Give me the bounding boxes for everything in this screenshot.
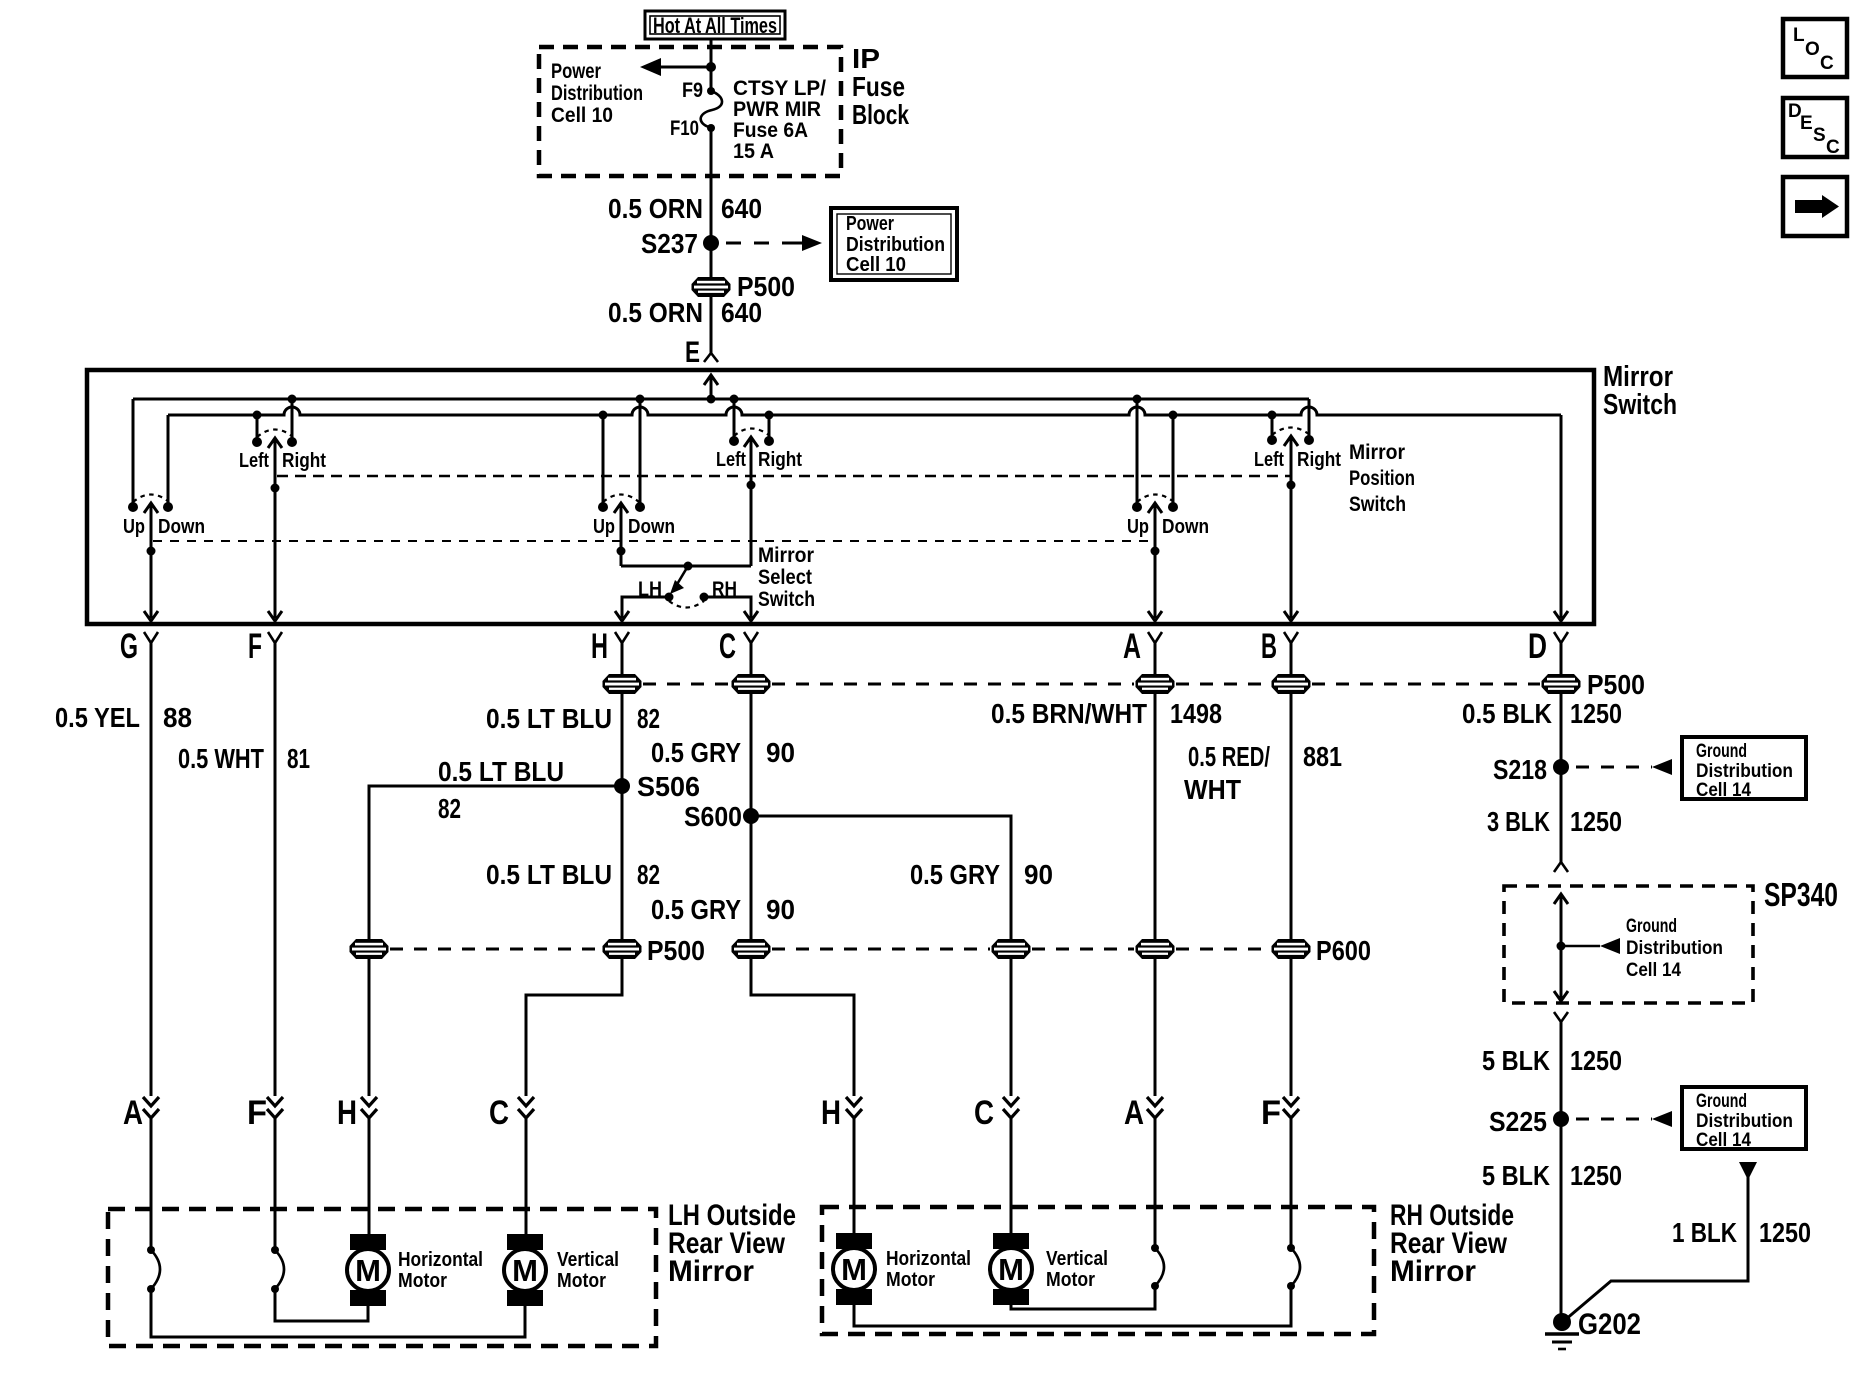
- svg-text:Down: Down: [158, 516, 205, 538]
- svg-text:640: 640: [721, 193, 762, 224]
- wire: column B: [1290, 643, 1293, 941]
- icon DESC: [1783, 98, 1847, 158]
- svg-text:S225: S225: [1489, 1106, 1547, 1137]
- connector P500 (power feed): [692, 277, 731, 297]
- pin C: [744, 632, 758, 643]
- RH pin H: [846, 1097, 862, 1118]
- svg-text:Mirror: Mirror: [1390, 1255, 1476, 1288]
- wire: column F down to LH mirror pin F: [274, 643, 277, 1096]
- RH pin A internal connector arc: [1151, 1244, 1159, 1252]
- wire: S600 branch column to RH mirror pin C: [1010, 957, 1013, 1096]
- svg-text:Distribution: Distribution: [846, 234, 945, 256]
- wire: S218 down to SP340: [1560, 767, 1563, 862]
- RH pin F: [1283, 1097, 1299, 1118]
- svg-text:Motor: Motor: [557, 1270, 606, 1292]
- svg-text:H: H: [591, 627, 608, 666]
- LH pin F internal connector arc: [271, 1246, 279, 1254]
- svg-text:0.5 GRY: 0.5 GRY: [651, 894, 741, 925]
- svg-text:1250: 1250: [1570, 698, 1622, 729]
- svg-text:F: F: [247, 1094, 267, 1132]
- svg-text:Position: Position: [1349, 467, 1415, 490]
- svg-text:Switch: Switch: [1603, 389, 1677, 421]
- svg-text:Select: Select: [758, 566, 812, 589]
- svg-text:82: 82: [637, 703, 660, 734]
- up/down switch RH mirror: feeds: [1133, 395, 1142, 404]
- wire: S506 branch column to LH mirror pin H: [368, 957, 371, 1096]
- pin H: [615, 632, 629, 643]
- svg-text:S: S: [1813, 125, 1826, 146]
- wire: H column jogs to LH mirror pin C: [526, 957, 622, 1096]
- splice S600: [743, 808, 759, 824]
- svg-text:1250: 1250: [1570, 1160, 1622, 1191]
- wiper to pin A: [1148, 503, 1162, 513]
- svg-text:Horizontal: Horizontal: [398, 1249, 483, 1271]
- svg-text:Down: Down: [1162, 516, 1209, 538]
- wire: A column to RH mirror pin A: [1154, 957, 1157, 1096]
- wire: bus2 left end down to Down contact (switch 1): [167, 415, 170, 507]
- pin A: [1148, 632, 1162, 643]
- svg-text:Down: Down: [628, 516, 675, 538]
- node: junction at branch: [706, 62, 716, 72]
- svg-text:Mirror: Mirror: [758, 544, 814, 567]
- wire: LH contact to pin H: [622, 597, 669, 618]
- pin F: [268, 632, 282, 643]
- svg-text:PWR MIR: PWR MIR: [733, 98, 821, 121]
- LH pin C: [518, 1097, 534, 1118]
- svg-text:P500: P500: [647, 935, 705, 966]
- svg-text:3 BLK: 3 BLK: [1487, 806, 1550, 837]
- svg-text:C: C: [1826, 137, 1840, 158]
- svg-text:Cell 14: Cell 14: [1696, 780, 1751, 801]
- svg-text:81: 81: [287, 743, 310, 774]
- svg-text:Distribution: Distribution: [1696, 1111, 1793, 1132]
- wire: S237 down to P500: [710, 243, 713, 278]
- dashed connector row P500: [643, 683, 730, 686]
- svg-text:F: F: [1261, 1094, 1281, 1132]
- svg-text:Motor: Motor: [1046, 1269, 1095, 1291]
- mirror position switch: feeds: [1268, 411, 1277, 420]
- left/right switch LH mirror: feeds: [253, 411, 262, 420]
- LH pin A internal connector arc: [147, 1246, 155, 1254]
- svg-text:Cell 10: Cell 10: [551, 104, 613, 127]
- splice S225: [1553, 1111, 1569, 1127]
- wire: feed from Hot At All Times into fuse block: [710, 39, 713, 90]
- svg-text:0.5 WHT: 0.5 WHT: [178, 743, 264, 774]
- svg-text:C: C: [489, 1094, 509, 1132]
- svg-text:0.5 LT BLU: 0.5 LT BLU: [486, 859, 612, 890]
- reference box: Ground Distribution Cell 14 (S218): [1682, 737, 1806, 801]
- RH vertical motor M4: [990, 1233, 1032, 1305]
- svg-text:Cell 14: Cell 14: [1696, 1130, 1751, 1151]
- svg-text:0.5 GRY: 0.5 GRY: [910, 859, 1000, 890]
- wire: fuse output down to S237: [710, 128, 713, 243]
- svg-text:Vertical: Vertical: [557, 1249, 619, 1271]
- pin G: [144, 632, 158, 643]
- svg-text:S600: S600: [684, 801, 742, 832]
- svg-text:Motor: Motor: [398, 1270, 447, 1292]
- svg-text:Fuse 6A: Fuse 6A: [733, 119, 808, 142]
- wire: RH A to vertical motor low side: [1011, 1286, 1155, 1309]
- svg-text:88: 88: [163, 702, 192, 733]
- wiper down to select node: [744, 437, 758, 447]
- pin B: [1284, 632, 1298, 643]
- svg-text:Power: Power: [846, 213, 894, 235]
- wire: column H: [621, 643, 624, 941]
- wire: S506 branch to LH horizontal motor: [369, 786, 622, 941]
- svg-text:0.5 LT BLU: 0.5 LT BLU: [438, 756, 564, 787]
- svg-text:P500: P500: [1587, 669, 1645, 700]
- splice S506: [614, 778, 630, 794]
- wire: column G down to LH mirror pin A: [150, 643, 153, 1096]
- left/right switch center: feeds: [730, 395, 739, 404]
- Power Distribution Cell 10 reference (inside fuse block): [551, 60, 643, 127]
- mirror select switch wiper (diagonal): [676, 566, 688, 586]
- IP fuse block (dashed box): [539, 47, 841, 176]
- wire: S600 branch to RH vertical motor: [751, 816, 1011, 941]
- svg-text:C: C: [1820, 53, 1834, 74]
- LH vertical motor M2: [504, 1234, 546, 1306]
- svg-text:15 A: 15 A: [733, 140, 774, 163]
- svg-text:90: 90: [766, 894, 795, 925]
- wire: P500 down to mirror switch pin E: [710, 296, 713, 353]
- svg-text:1250: 1250: [1570, 806, 1622, 837]
- svg-text:Up: Up: [1127, 516, 1149, 538]
- svg-text:0.5 BLK: 0.5 BLK: [1462, 698, 1552, 729]
- svg-text:1498: 1498: [1170, 698, 1222, 729]
- wiper down to select node: [614, 503, 628, 513]
- svg-text:Cell 10: Cell 10: [846, 254, 906, 276]
- svg-text:SP340: SP340: [1764, 876, 1838, 913]
- svg-text:O: O: [1805, 39, 1820, 60]
- svg-text:Right: Right: [282, 450, 326, 472]
- svg-text:Vertical: Vertical: [1046, 1248, 1108, 1270]
- RH pin C: [1003, 1097, 1019, 1118]
- svg-text:90: 90: [766, 737, 795, 768]
- svg-text:B: B: [1261, 627, 1277, 666]
- icon LOC: [1783, 19, 1847, 77]
- svg-text:Right: Right: [758, 449, 802, 471]
- svg-text:CTSY LP/: CTSY LP/: [733, 77, 826, 100]
- LH pin F: [267, 1097, 283, 1118]
- svg-text:1 BLK: 1 BLK: [1672, 1217, 1737, 1248]
- connector P600 (S600 branch): [992, 939, 1031, 959]
- wire: column A: [1154, 643, 1157, 941]
- RH horizontal motor M3: [833, 1233, 875, 1305]
- icon next-page arrow: [1783, 177, 1847, 236]
- svg-text:Mirror: Mirror: [1349, 441, 1405, 464]
- svg-text:1250: 1250: [1570, 1045, 1622, 1076]
- svg-text:640: 640: [721, 297, 762, 328]
- mechanical link left/right switches (dashed): [277, 475, 1291, 478]
- svg-text:Ground: Ground: [1696, 1091, 1747, 1112]
- left/right switch LH mirror: contacts: [252, 437, 262, 447]
- svg-text:82: 82: [637, 859, 660, 890]
- svg-text:0.5 ORN: 0.5 ORN: [608, 193, 703, 224]
- svg-text:S237: S237: [641, 228, 698, 259]
- svg-text:WHT: WHT: [1184, 774, 1241, 805]
- connector P500 row (C): [732, 674, 771, 694]
- svg-text:Left: Left: [716, 449, 746, 471]
- svg-text:L: L: [1793, 25, 1805, 46]
- svg-text:Horizontal: Horizontal: [886, 1248, 971, 1270]
- wire: column D upper: [1560, 643, 1563, 767]
- svg-text:5 BLK: 5 BLK: [1482, 1160, 1550, 1191]
- connector P600 (B): [1272, 939, 1311, 959]
- svg-text:90: 90: [1024, 859, 1053, 890]
- ground G202: [1553, 1313, 1571, 1331]
- svg-text:E: E: [685, 336, 700, 369]
- svg-text:0.5 BRN/WHT: 0.5 BRN/WHT: [991, 698, 1147, 729]
- wire: internal bus 1: [133, 398, 1309, 401]
- wire: RH F to horizontal motor low side: [854, 1286, 1291, 1326]
- mirror position switch: contacts: [1267, 435, 1277, 445]
- svg-text:Switch: Switch: [758, 588, 815, 611]
- svg-text:Left: Left: [1254, 449, 1284, 471]
- wire: SP340 down to S225: [1554, 1012, 1568, 1022]
- svg-text:881: 881: [1303, 741, 1342, 772]
- connector P600 (C): [732, 939, 771, 959]
- left/right switch center: contacts: [729, 436, 739, 446]
- svg-text:H: H: [337, 1094, 357, 1132]
- svg-text:F10: F10: [670, 117, 699, 140]
- splice S218: [1553, 759, 1569, 775]
- up/down switch center: contacts: [598, 502, 608, 512]
- connector P500 row (D): [1542, 674, 1581, 694]
- svg-text:Fuse: Fuse: [852, 71, 905, 102]
- svg-text:Switch: Switch: [1349, 493, 1406, 516]
- connector P500 lower (S506 branch): [350, 939, 389, 959]
- reference box: Power Distribution Cell 10: [831, 208, 957, 280]
- svg-text:D: D: [1528, 627, 1547, 666]
- svg-text:Up: Up: [593, 516, 615, 538]
- svg-text:Block: Block: [852, 99, 909, 130]
- svg-text:0.5 ORN: 0.5 ORN: [608, 297, 703, 328]
- svg-text:G: G: [120, 627, 138, 666]
- up/down switch LH mirror: contacts: [128, 502, 138, 512]
- svg-text:A: A: [1123, 627, 1141, 666]
- RH pin F internal connector arc: [1287, 1244, 1295, 1252]
- dashed reference arrow to Power Distribution Cell 10: [726, 242, 784, 245]
- splice S237: [703, 235, 719, 251]
- connector P500 row (H): [603, 674, 642, 694]
- svg-text:F9: F9: [682, 79, 703, 102]
- svg-text:S218: S218: [1493, 754, 1547, 785]
- svg-text:0.5 LT BLU: 0.5 LT BLU: [486, 703, 612, 734]
- svg-text:Motor: Motor: [886, 1269, 935, 1291]
- wiper to pin B: [1284, 436, 1298, 446]
- connector P500 lower (H): [603, 939, 642, 959]
- wire: ground distribution return to G202: [1739, 1162, 1757, 1180]
- svg-text:5 BLK: 5 BLK: [1482, 1045, 1550, 1076]
- svg-text:IP: IP: [852, 43, 880, 74]
- LH horizontal motor M1: [347, 1234, 389, 1306]
- wire: LH A to vertical motor low side: [151, 1289, 525, 1337]
- svg-text:P600: P600: [1316, 935, 1371, 966]
- svg-text:Hot At All Times: Hot At All Times: [653, 13, 777, 38]
- wire: bus2 right end down to pin D: [1560, 415, 1563, 618]
- label box: Hot At All Times: [645, 11, 785, 39]
- svg-text:G202: G202: [1578, 1308, 1641, 1341]
- svg-text:Cell 14: Cell 14: [1626, 960, 1681, 981]
- svg-text:A: A: [1124, 1094, 1144, 1132]
- svg-text:Power: Power: [551, 60, 601, 83]
- svg-text:C: C: [974, 1094, 994, 1132]
- wiper to pin G: [144, 503, 158, 513]
- svg-text:C: C: [719, 627, 736, 666]
- pin D: [1554, 632, 1568, 643]
- svg-text:H: H: [821, 1094, 841, 1132]
- wire: select common bar: [621, 565, 751, 568]
- splice pack SP340 (dashed box): [1504, 886, 1753, 1003]
- RH pin A: [1147, 1097, 1163, 1118]
- svg-text:A: A: [123, 1094, 143, 1132]
- svg-text:0.5 RED/: 0.5 RED/: [1188, 741, 1270, 772]
- mirror select switch contacts LH / RH: [665, 593, 674, 602]
- wire inside SP340: [1554, 894, 1568, 904]
- svg-text:82: 82: [438, 793, 461, 824]
- svg-text:E: E: [1800, 113, 1813, 134]
- wire: LH F to horizontal motor low side: [275, 1289, 368, 1321]
- LH pin H: [361, 1097, 377, 1118]
- wire: C column jogs to RH mirror pin H: [751, 957, 854, 1096]
- reference box: Ground Distribution Cell 14 (S225): [1682, 1087, 1806, 1151]
- svg-text:Right: Right: [1297, 449, 1341, 471]
- svg-text:Distribution: Distribution: [1696, 761, 1793, 782]
- wire: RH contact to pin C: [704, 597, 751, 618]
- pin E entry connector: [704, 353, 718, 362]
- svg-text:S506: S506: [637, 771, 700, 802]
- wire: column C: [750, 643, 753, 941]
- svg-text:1250: 1250: [1759, 1217, 1811, 1248]
- mechanical link up/down switches (dashed): [153, 540, 1155, 542]
- wiper to pin F: [268, 438, 282, 448]
- svg-text:Distribution: Distribution: [551, 82, 643, 105]
- IP Fuse Block label: [852, 43, 909, 130]
- svg-text:Ground: Ground: [1696, 741, 1747, 762]
- svg-text:Mirror: Mirror: [668, 1255, 754, 1288]
- up/down switch RH mirror: contacts: [1132, 502, 1142, 512]
- svg-text:0.5 GRY: 0.5 GRY: [651, 737, 741, 768]
- svg-text:Up: Up: [123, 516, 145, 538]
- svg-text:Left: Left: [239, 450, 269, 472]
- node: E junction on bus 1: [707, 395, 716, 404]
- wire: B column to RH mirror pin F: [1290, 957, 1293, 1096]
- svg-text:0.5 YEL: 0.5 YEL: [55, 702, 140, 733]
- svg-text:Ground: Ground: [1626, 916, 1677, 937]
- svg-text:Distribution: Distribution: [1626, 938, 1723, 959]
- connector P600 (A): [1136, 939, 1175, 959]
- LH pin A: [143, 1097, 159, 1118]
- fuse F9/F10 CTSY LP/PWR MIR 6A: [670, 77, 826, 163]
- wire: internal bus 2 with hops: [168, 407, 1561, 415]
- svg-text:F: F: [248, 627, 262, 666]
- up/down switch (select common) feeds: bus2 to Up, bus1 to Down: [599, 411, 608, 420]
- wire: branch to power distribution (left arrow): [652, 66, 711, 69]
- wire: bus1 left end down to Up contact (switch 1): [132, 399, 135, 507]
